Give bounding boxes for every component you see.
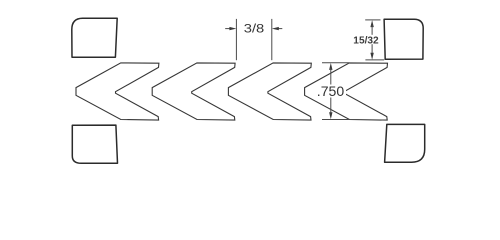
dim 15/32: vertical line upper segment + up arrow (370, 20, 373, 27)
svg-text:15/32: 15/32 (353, 35, 379, 46)
dim .750: bottom extension line (322, 119, 349, 121)
dim .750: vertical line + arrows (329, 63, 332, 70)
block top-right (rounded top-right corner) (384, 19, 423, 59)
dim 3/8: left arrow (points right) (225, 28, 231, 30)
dim 15/32: text (352, 35, 380, 44)
chevron 2 (152, 63, 235, 120)
dim 3/8: right extension line (271, 19, 273, 60)
block bottom-right (rounded bottom-right corner) (385, 124, 425, 162)
dim .750: top extension line (322, 62, 349, 64)
block top-left (rounded top-left corner) (72, 18, 117, 57)
dim 3/8: left extension line (235, 19, 237, 60)
chevron 3 (228, 63, 311, 120)
chevron 4 (305, 63, 388, 120)
dim 15/32: top tick (365, 19, 380, 21)
dim 15/32: vertical line lower segment + down arrow (371, 44, 373, 55)
dim 3/8: right arrow (points left) (277, 28, 283, 30)
dim 15/32: bottom tick (365, 59, 384, 61)
block bottom-left (rounded bottom-left corner) (72, 125, 117, 163)
svg-text:3/8: 3/8 (244, 24, 265, 36)
chevron 1 (76, 63, 159, 120)
svg-text:.750: .750 (317, 83, 345, 99)
dim .750: text with mask (315, 85, 346, 98)
